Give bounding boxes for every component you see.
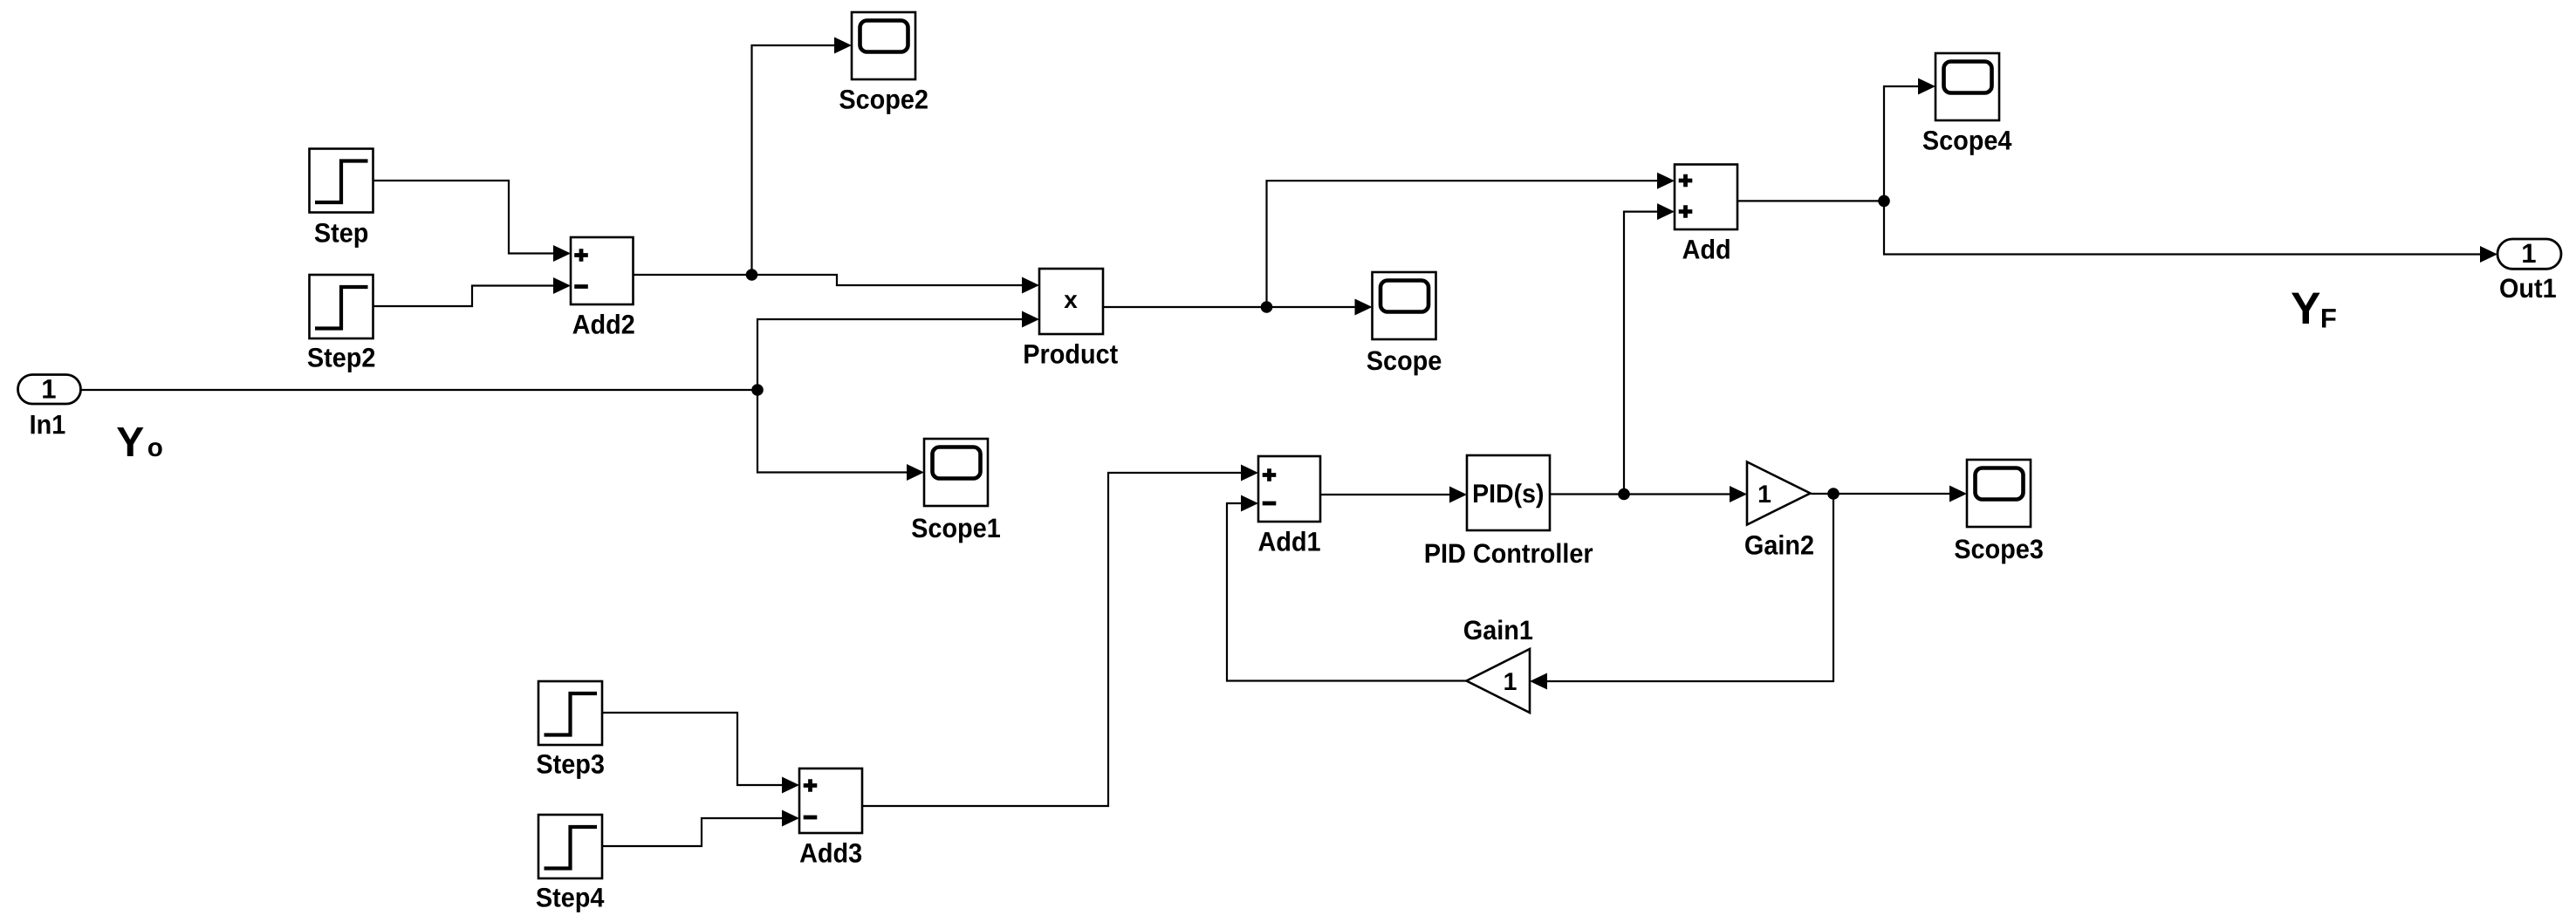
sum block Add3 xyxy=(799,768,862,833)
junction on Add2 output net xyxy=(746,269,758,281)
label Scope2 xyxy=(839,90,928,114)
scope Scope4 xyxy=(1935,53,1999,120)
wire junction up to Product input 2 xyxy=(757,319,1023,390)
label Product xyxy=(1024,344,1118,364)
wire PID Controller output to Gain2 xyxy=(1550,493,1730,495)
junction on Add output net xyxy=(1878,195,1890,208)
label Out1 xyxy=(2500,278,2556,297)
wire In1 to junction xyxy=(81,389,758,391)
label Scope3 xyxy=(1955,539,2043,563)
wire branch junction to Scope2 xyxy=(752,45,836,275)
junction on Gain2 output net xyxy=(1827,488,1840,500)
wire Step to Add2 plus input xyxy=(373,181,555,254)
label Gain2 xyxy=(1745,535,1813,555)
input port In1 xyxy=(18,375,81,405)
junction on In1 net xyxy=(751,384,764,396)
junction on Product output net xyxy=(1261,301,1273,313)
annotation node Yo xyxy=(117,427,143,456)
gain block Gain2 xyxy=(1747,462,1811,525)
wire branch junction down to Gain1 input xyxy=(1546,494,1833,681)
step source Step4 xyxy=(538,815,602,878)
label Add1 xyxy=(1258,531,1320,551)
wire Step2 to Add2 minus input xyxy=(373,286,555,307)
gain block Gain1 (feedback, points left) xyxy=(1467,649,1531,713)
output port Out1 xyxy=(2497,239,2561,269)
sum block Add1 xyxy=(1258,456,1320,522)
label Step2 xyxy=(308,348,375,372)
label Add3 xyxy=(800,843,861,863)
label Step4 xyxy=(537,888,605,912)
label Step xyxy=(315,223,367,248)
label PID Controller xyxy=(1426,543,1593,563)
wire Add output to junction xyxy=(1737,200,1884,201)
product block Product xyxy=(1039,269,1103,334)
annotation node YF xyxy=(2292,293,2320,324)
label Gain1 xyxy=(1464,620,1532,640)
wire Add2 output to Product input 1 xyxy=(634,275,1024,285)
scope Scope2 xyxy=(852,12,915,79)
wire junction down to Scope1 xyxy=(757,390,908,473)
label Scope4 xyxy=(1923,131,2012,155)
label Add xyxy=(1682,239,1729,259)
wire Gain2 output to Scope3 xyxy=(1811,493,1951,495)
label Add2 xyxy=(572,314,634,334)
wire branch junction up to Add plus input 2 xyxy=(1624,212,1658,495)
scope Scope3 xyxy=(1967,460,2031,527)
scope Scope xyxy=(1373,272,1436,339)
step source Step xyxy=(310,149,373,213)
label Step3 xyxy=(537,755,604,779)
label Scope1 xyxy=(912,518,1000,543)
wire Step4 to Add3 minus input xyxy=(602,818,783,846)
scope Scope1 xyxy=(924,439,988,506)
wire Step3 to Add3 plus input xyxy=(602,713,783,785)
label Scope xyxy=(1367,351,1442,375)
wire Gain1 output to Add1 minus input xyxy=(1227,503,1467,681)
step source Step3 xyxy=(538,681,602,745)
step source Step2 xyxy=(310,275,373,338)
wire Product output to Scope xyxy=(1103,306,1355,308)
label In1 xyxy=(31,415,65,434)
wire junction down to Out1 xyxy=(1884,201,2481,254)
wire Add1 output to PID Controller xyxy=(1320,494,1450,495)
wire branch junction up to Add plus input 1 xyxy=(1267,181,1659,307)
wire Add3 output to Add1 plus input xyxy=(862,473,1242,806)
wire junction up to Scope4 xyxy=(1884,86,1919,201)
junction on PID output net xyxy=(1618,488,1630,501)
PID controller block U1 xyxy=(1467,455,1550,530)
sum block Add2 xyxy=(571,237,634,304)
sum block Add xyxy=(1675,165,1737,230)
